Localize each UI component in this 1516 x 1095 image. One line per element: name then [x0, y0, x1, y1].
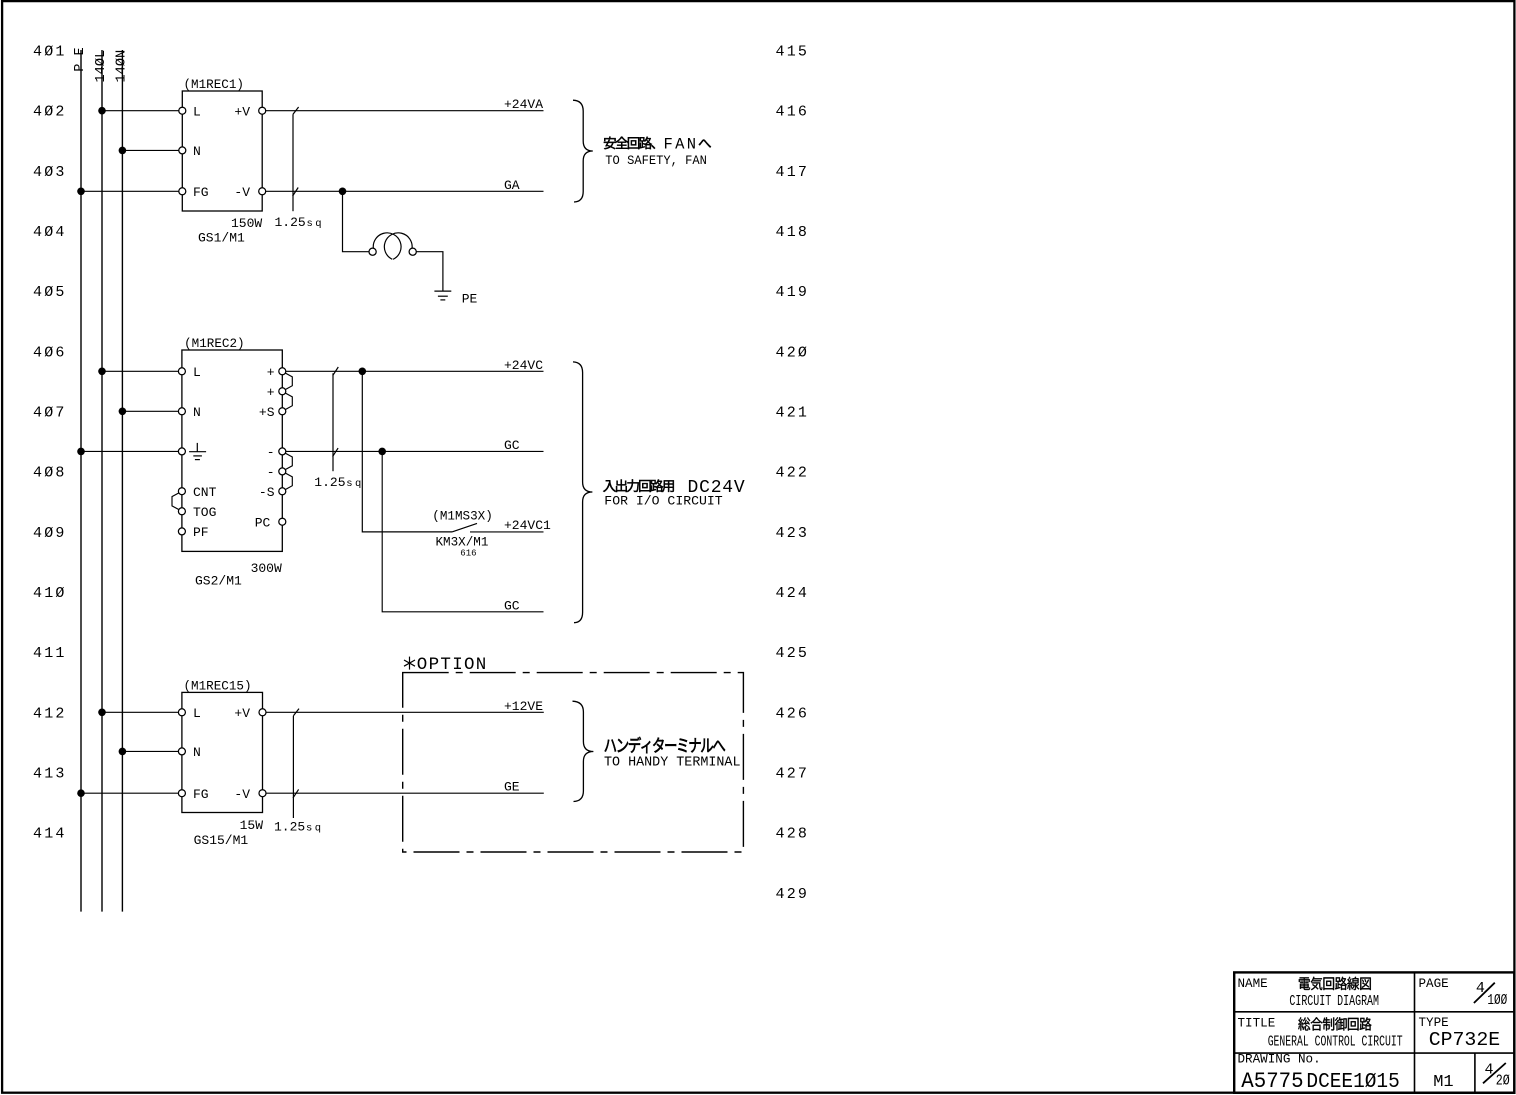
- asterisk star: [404, 657, 415, 670]
- wire 140L to L (block2): [102, 370, 178, 372]
- title block bottom-row divider: [1474, 1053, 1476, 1093]
- junction dot on GC wire: [378, 448, 386, 456]
- annotation JP for I/O circuit DC24V: [603, 479, 674, 492]
- wire 140N to N (block2): [122, 410, 178, 412]
- svg-text:422: 422: [776, 465, 810, 482]
- svg-text:(M1REC15): (M1REC15): [184, 680, 252, 694]
- svg-text:GS2/M1: GS2/M1: [195, 574, 242, 589]
- svg-text:4Ø2: 4Ø2: [33, 104, 67, 121]
- svg-text:4Ø1: 4Ø1: [33, 44, 67, 61]
- svg-text:14ØN: 14ØN: [114, 50, 129, 83]
- junction dot PE (block2): [77, 448, 85, 456]
- svg-text:+V: +V: [234, 706, 250, 721]
- jumper loop - to -: [285, 453, 292, 470]
- svg-text:419: 419: [776, 284, 810, 301]
- pin labels + + +S - - -S PC: [255, 365, 275, 530]
- wire - to GC: [286, 450, 544, 452]
- svg-text:PAGE: PAGE: [1419, 977, 1449, 991]
- svg-text:N: N: [193, 144, 201, 159]
- svg-text:(M1MS3X): (M1MS3X): [432, 510, 492, 524]
- svg-text:KM3X/M1: KM3X/M1: [436, 536, 489, 550]
- terminal L (block2): [178, 368, 185, 375]
- pin labels +V -V: [234, 104, 250, 200]
- wire 140N to N: [122, 149, 178, 151]
- ring filter left terminal: [369, 248, 376, 255]
- title block row divider 2: [1234, 1052, 1514, 1054]
- svg-text:sq: sq: [306, 823, 323, 835]
- svg-text:TITLE: TITLE: [1238, 1017, 1276, 1031]
- svg-text:4Ø5: 4Ø5: [33, 284, 67, 301]
- wire 140L to L: [102, 110, 179, 112]
- svg-text:423: 423: [776, 525, 810, 542]
- svg-text:4Ø7: 4Ø7: [33, 405, 67, 422]
- terminal PF (block2): [178, 528, 185, 535]
- svg-text:616: 616: [460, 549, 476, 559]
- bus line PE: [80, 50, 82, 912]
- svg-text:PE: PE: [462, 291, 478, 306]
- svg-text:L: L: [193, 706, 201, 721]
- terminal - (2) (block2): [279, 468, 286, 475]
- svg-text:N: N: [193, 405, 201, 420]
- svg-text:412: 412: [33, 705, 67, 722]
- svg-text:2Ø: 2Ø: [1496, 1073, 1510, 1090]
- svg-text:1.25: 1.25: [275, 215, 306, 230]
- junction dot 140N: [119, 147, 127, 155]
- terminal + (2) (block2): [279, 388, 286, 395]
- svg-text:1.25: 1.25: [274, 820, 305, 835]
- wire ring filter to PE ground: [416, 252, 443, 291]
- terminal E (block2): [178, 448, 185, 455]
- svg-text:413: 413: [33, 766, 67, 783]
- terminal FG: [179, 188, 186, 195]
- svg-text:+24VC: +24VC: [504, 358, 543, 373]
- earth symbol inside box: [189, 443, 206, 460]
- junction dot 140L (block2): [98, 368, 106, 376]
- svg-text:414: 414: [33, 826, 67, 843]
- svg-text:GENERAL CONTROL CIRCUIT: GENERAL CONTROL CIRCUIT: [1268, 1034, 1403, 1050]
- svg-text:P E: P E: [73, 47, 88, 71]
- wire -V to GE: [266, 792, 544, 794]
- svg-text:FOR I/O CIRCUIT: FOR I/O CIRCUIT: [604, 494, 723, 509]
- svg-text:418: 418: [776, 224, 810, 241]
- cable marker 1.25sq (block3): [293, 709, 299, 818]
- svg-text:4Ø8: 4Ø8: [33, 465, 67, 482]
- junction dot PE (block3): [77, 789, 85, 797]
- terminal -S (block2): [279, 488, 286, 495]
- terminal N (block3): [178, 748, 185, 755]
- wire + to +24VC: [286, 370, 544, 372]
- svg-text:150W: 150W: [231, 216, 262, 231]
- title block outer border: [1234, 972, 1514, 1092]
- svg-text:424: 424: [776, 585, 810, 602]
- title block row divider 1: [1234, 1011, 1514, 1013]
- wire GA junction down to ring filter: [343, 191, 370, 251]
- terminal N (block2): [178, 408, 185, 415]
- pin labels L N CNT TOG PF: [193, 365, 217, 540]
- wire PE to FG: [81, 190, 179, 192]
- svg-text:-: -: [267, 465, 275, 480]
- bus line 140L: [101, 50, 103, 912]
- terminal -V: [259, 188, 266, 195]
- branch wire +24VC down to switch: [362, 371, 452, 532]
- terminal - (1) (block2): [279, 448, 286, 455]
- pin labels L N FG (block3): [193, 706, 209, 802]
- jumper loop CNT-TOG: [172, 493, 179, 510]
- svg-text:42Ø: 42Ø: [776, 344, 810, 361]
- svg-text:421: 421: [776, 405, 810, 422]
- svg-text:427: 427: [776, 766, 810, 783]
- svg-text:CNT: CNT: [193, 485, 217, 500]
- terminal L (block3): [178, 709, 185, 716]
- junction dot on GA wire: [339, 188, 347, 196]
- power supply GS2/M1 (M1REC2) box: [182, 350, 282, 551]
- brace for I/O circuit: [573, 362, 592, 623]
- cable marker 1.25sq (block2): [333, 367, 339, 471]
- svg-text:4Ø6: 4Ø6: [33, 344, 67, 361]
- svg-text:FG: FG: [193, 787, 209, 802]
- annotation JP to safety/fan: [604, 137, 655, 150]
- svg-text:-V: -V: [234, 185, 250, 200]
- svg-text:+24VC1: +24VC1: [504, 518, 551, 533]
- terminal +V: [259, 107, 266, 114]
- svg-text:CIRCUIT DIAGRAM: CIRCUIT DIAGRAM: [1289, 994, 1379, 1010]
- svg-text:-S: -S: [259, 485, 275, 500]
- svg-text:+: +: [267, 365, 275, 380]
- brace to handy terminal: [573, 701, 594, 801]
- jumper loop - to -S: [285, 473, 292, 490]
- svg-text:+12VE: +12VE: [504, 699, 543, 714]
- pin labels L N FG: [193, 104, 209, 200]
- bus line 140N: [121, 50, 123, 912]
- svg-text:M1: M1: [1433, 1073, 1453, 1092]
- terminal -V (block3): [259, 790, 266, 797]
- ring filter (common-mode choke): [373, 233, 412, 259]
- svg-text:417: 417: [776, 164, 810, 181]
- svg-text:PC: PC: [255, 515, 271, 530]
- svg-text:GS1/M1: GS1/M1: [198, 231, 245, 246]
- svg-text:TO SAFETY, FAN: TO SAFETY, FAN: [605, 154, 707, 168]
- wire -V to GA: [266, 190, 544, 192]
- junction dot on +24VC wire: [359, 368, 367, 376]
- svg-text:sq: sq: [346, 478, 363, 490]
- terminal +V (block3): [259, 709, 266, 716]
- terminal N: [179, 147, 186, 154]
- svg-text:L: L: [193, 104, 201, 119]
- branch wire GC down: [382, 451, 543, 611]
- svg-text:300W: 300W: [251, 561, 282, 576]
- terminal TOG (block2): [178, 508, 185, 515]
- svg-text:425: 425: [776, 645, 810, 662]
- left row numbers 401-414: [33, 44, 67, 843]
- svg-text:GC: GC: [504, 438, 520, 453]
- wire +V to +12VE: [266, 711, 544, 713]
- svg-text:(M1REC1): (M1REC1): [184, 78, 244, 92]
- terminal +S (block2): [279, 408, 286, 415]
- svg-text:-: -: [267, 445, 275, 460]
- ring filter right terminal: [409, 248, 416, 255]
- terminal L: [179, 107, 186, 114]
- wire +V to +24VA: [266, 110, 544, 112]
- annotation JP he (to): [699, 139, 711, 147]
- svg-text:GE: GE: [504, 780, 520, 795]
- svg-text:-V: -V: [234, 787, 250, 802]
- svg-text:GA: GA: [504, 178, 520, 193]
- terminal PC (block2): [279, 518, 286, 525]
- title JP circuit diagram: [1299, 977, 1371, 990]
- switch KM3X/M1 blade (M1MS3X): [452, 523, 477, 532]
- svg-text:GS15/M1: GS15/M1: [194, 833, 249, 848]
- junction dot 140N (block2): [119, 408, 127, 416]
- svg-text:L: L: [193, 365, 201, 380]
- svg-text:NAME: NAME: [1238, 977, 1268, 991]
- svg-text:DRAWING No.: DRAWING No.: [1238, 1053, 1321, 1067]
- svg-text:429: 429: [776, 886, 810, 903]
- svg-text:415: 415: [776, 44, 810, 61]
- right row numbers 415-429: [776, 44, 810, 903]
- svg-text:OPTION: OPTION: [417, 655, 488, 675]
- wire 140L to L (block3): [102, 711, 178, 713]
- svg-text:DCEE1Ø15: DCEE1Ø15: [1306, 1071, 1399, 1094]
- wire switch to +24VC1: [470, 531, 544, 533]
- ground symbol PE: [434, 291, 451, 300]
- svg-text:14ØL: 14ØL: [94, 50, 109, 83]
- svg-text:(M1REC2): (M1REC2): [184, 337, 244, 351]
- title block column divider: [1414, 972, 1416, 1092]
- svg-text:15W: 15W: [240, 818, 264, 833]
- svg-text:GC: GC: [504, 598, 520, 613]
- title JP general control circuit: [1298, 1017, 1371, 1030]
- svg-text:FG: FG: [193, 185, 209, 200]
- svg-text:+: +: [267, 385, 275, 400]
- power supply GS15/M1 (M1REC15) box: [182, 692, 263, 812]
- svg-text:426: 426: [776, 705, 810, 722]
- junction dot 140L (block3): [98, 709, 106, 717]
- junction dot 140L: [98, 107, 106, 115]
- svg-text:428: 428: [776, 826, 810, 843]
- terminal FG (block3): [178, 790, 185, 797]
- jumper loop + to +: [285, 373, 292, 390]
- jumper loop + to +S: [285, 393, 292, 410]
- terminal CNT (block2): [178, 488, 185, 495]
- terminal + (1) (block2): [279, 368, 286, 375]
- wire 140N to N (block3): [122, 750, 178, 752]
- svg-text:A5775: A5775: [1241, 1069, 1303, 1094]
- power supply GS1/M1 (M1REC1) box: [182, 91, 262, 211]
- svg-text:1.25: 1.25: [314, 475, 345, 490]
- svg-text:4Ø3: 4Ø3: [33, 164, 67, 181]
- svg-text:411: 411: [33, 645, 67, 662]
- option dashed box: [403, 673, 744, 852]
- svg-text:+V: +V: [234, 104, 250, 119]
- annotation JP to handy terminal: [605, 737, 726, 753]
- svg-text:sq: sq: [307, 218, 324, 230]
- svg-text:PF: PF: [193, 525, 209, 540]
- svg-text:41Ø: 41Ø: [33, 585, 67, 602]
- junction dot 140N (block3): [119, 748, 127, 756]
- svg-text:1ØØ: 1ØØ: [1487, 992, 1507, 1009]
- svg-text:CP732E: CP732E: [1429, 1029, 1501, 1051]
- pin labels +V -V (block3): [234, 706, 250, 802]
- svg-text:TO HANDY TERMINAL: TO HANDY TERMINAL: [604, 754, 741, 770]
- junction dot PE: [77, 188, 85, 196]
- svg-text:4Ø9: 4Ø9: [33, 525, 67, 542]
- svg-text:4Ø4: 4Ø4: [33, 224, 67, 241]
- wire PE to FG (block3): [81, 792, 178, 794]
- cable marker 1.25sq (block1): [293, 107, 299, 211]
- svg-text:FAN: FAN: [664, 135, 699, 153]
- wire PE to earth terminal (block2): [81, 450, 178, 452]
- brace to safety/fan: [573, 100, 593, 202]
- svg-text:+24VA: +24VA: [504, 97, 543, 112]
- svg-text:+S: +S: [259, 405, 275, 420]
- svg-text:N: N: [193, 745, 201, 760]
- svg-text:416: 416: [776, 104, 810, 121]
- svg-text:TOG: TOG: [193, 505, 216, 520]
